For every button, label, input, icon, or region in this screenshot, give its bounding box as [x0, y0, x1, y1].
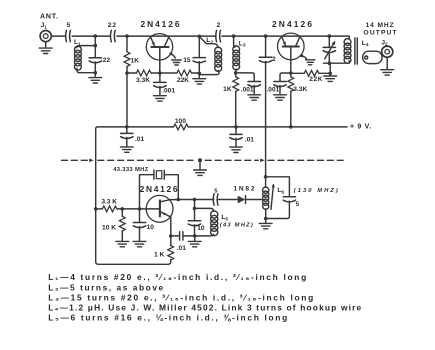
svg-text:22: 22 — [103, 57, 111, 64]
svg-text:22K: 22K — [177, 77, 189, 84]
svg-text:.001: .001 — [241, 86, 254, 93]
svg-text:15: 15 — [183, 57, 191, 64]
svg-text:22K: 22K — [309, 76, 323, 83]
svg-text:1K: 1K — [131, 58, 140, 65]
svg-text:5: 5 — [214, 188, 217, 194]
svg-text:2: 2 — [217, 22, 221, 29]
svg-text:10: 10 — [197, 225, 205, 232]
svg-text:L₄—1.2 μH. Use J. W. Miller 45: L₄—1.2 μH. Use J. W. Miller 4502. Link 3… — [48, 303, 361, 313]
svg-text:.001: .001 — [266, 86, 279, 93]
svg-text:1K: 1K — [223, 86, 232, 93]
svg-text:ANT.: ANT. — [40, 13, 59, 20]
svg-text:OUTPUT: OUTPUT — [364, 29, 397, 36]
svg-text:1 K: 1 K — [154, 252, 164, 259]
svg-text:10: 10 — [147, 224, 155, 231]
svg-text:5: 5 — [67, 22, 71, 29]
svg-text:10 K: 10 K — [102, 225, 116, 232]
svg-text:L₂—5 turns, as above: L₂—5 turns, as above — [48, 282, 163, 292]
svg-text:43.333 MHZ: 43.333 MHZ — [113, 167, 148, 173]
svg-text:L₃—15 turns #20 e., ³⁄₁₆-inch: L₃—15 turns #20 e., ³⁄₁₆-inch i.d., ³⁄₁₆… — [48, 292, 313, 302]
svg-text:.01: .01 — [245, 136, 254, 143]
svg-text:L₁—4 turns #20 e., ³⁄₁₆-inch i: L₁—4 turns #20 e., ³⁄₁₆-inch i.d., ³⁄₁₆-… — [48, 272, 306, 282]
svg-text:100: 100 — [175, 118, 186, 125]
svg-text:3.3 K: 3.3 K — [101, 198, 117, 205]
svg-text:22: 22 — [108, 22, 117, 29]
svg-text:.01: .01 — [135, 136, 144, 143]
svg-text:3.3K: 3.3K — [136, 77, 150, 84]
svg-text:2: 2 — [272, 56, 276, 63]
svg-text:14 MHZ: 14 MHZ — [366, 22, 394, 29]
svg-text:+ 9 V.: + 9 V. — [350, 124, 372, 131]
svg-text:.001: .001 — [162, 88, 175, 95]
svg-text:.01: .01 — [177, 245, 186, 252]
svg-text:3.3K: 3.3K — [293, 86, 307, 93]
svg-text:(43 MHZ): (43 MHZ) — [220, 223, 253, 229]
